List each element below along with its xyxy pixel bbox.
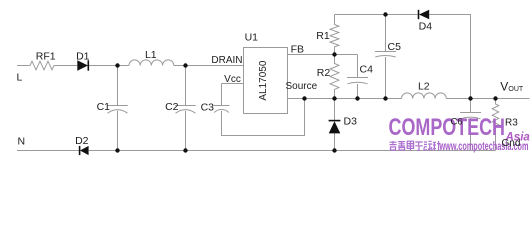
- svg-text:R1: R1: [316, 30, 330, 42]
- svg-text:Gnd: Gnd: [502, 138, 521, 149]
- svg-text:C3: C3: [201, 102, 215, 114]
- junction dot output R3: [493, 96, 497, 100]
- svg-text:D1: D1: [76, 51, 90, 63]
- svg-text:Vcc: Vcc: [224, 74, 241, 85]
- svg-text:C1: C1: [97, 101, 111, 113]
- resistor R2: [330, 55, 339, 99]
- inductor L2: [402, 93, 447, 99]
- junction dot source C4: [355, 96, 359, 100]
- wire C4 branch upper: [357, 55, 359, 78]
- wire C4 branch lower: [357, 84, 359, 99]
- bottom rail N to D2: [17, 150, 79, 152]
- svg-text:C5: C5: [388, 41, 402, 53]
- wire Source pin: [288, 98, 402, 100]
- top rail right of D4 to output node: [429, 15, 470, 99]
- svg-text:U1: U1: [245, 31, 259, 43]
- wire RF1 to D1: [54, 65, 77, 67]
- IC U1 box: [244, 48, 288, 114]
- wire D3 branch upper: [334, 99, 336, 121]
- wire C1 branch lower: [117, 111, 119, 151]
- svg-text:D4: D4: [419, 20, 433, 32]
- svg-text:L1: L1: [145, 49, 157, 61]
- capacitor C2: [175, 106, 196, 114]
- svg-text:Source: Source: [286, 81, 318, 92]
- junction dot bottom rail C2: [183, 148, 187, 152]
- wire C5 branch upper: [385, 15, 387, 52]
- svg-text:N: N: [18, 136, 26, 148]
- diode D4: [419, 10, 429, 19]
- top rail left of D4: [335, 14, 418, 16]
- diode D3: [329, 121, 341, 133]
- svg-text:OUT: OUT: [508, 86, 524, 93]
- bottom rail D2 to Gnd: [89, 150, 496, 152]
- inductor L1: [129, 60, 174, 66]
- wire C1 branch upper: [117, 66, 119, 106]
- svg-text:V: V: [500, 80, 508, 94]
- wire C2 branch upper: [185, 66, 187, 106]
- wire C6 branch lower: [470, 118, 472, 151]
- svg-text:R2: R2: [317, 67, 331, 79]
- svg-text:DRAIN: DRAIN: [211, 55, 242, 66]
- resistor R3: [492, 99, 498, 151]
- resistor RF1: [30, 61, 54, 70]
- capacitor C6: [460, 113, 481, 119]
- wire D1 to L1: [89, 65, 129, 67]
- svg-text:AL17050: AL17050: [258, 60, 269, 100]
- junction dot FB divider: [332, 52, 336, 56]
- junction dot L line C1: [115, 63, 119, 67]
- wire C2 branch lower: [185, 111, 187, 151]
- capacitor C4: [347, 78, 368, 84]
- diode D2: [80, 146, 89, 155]
- svg-text:C4: C4: [360, 63, 374, 75]
- junction dot L line C2: [183, 63, 187, 67]
- svg-text:C2: C2: [165, 101, 179, 113]
- junction dot source R2 D3: [332, 96, 336, 100]
- resistor R1: [330, 15, 339, 55]
- junction dot output C6: [468, 96, 472, 100]
- wire Vcc to C3: [221, 84, 223, 106]
- diode D1: [77, 60, 88, 70]
- wire D3 branch lower: [334, 133, 336, 150]
- svg-text:L: L: [17, 72, 23, 84]
- wire L1 to U1 DRAIN pin: [174, 65, 244, 67]
- wire L2 to VOUT: [446, 98, 529, 100]
- wire C6 branch upper: [470, 99, 472, 113]
- wire C5 branch lower: [385, 57, 387, 99]
- svg-text:D3: D3: [344, 115, 358, 127]
- wire L input to RF1: [17, 65, 30, 67]
- junction dot source C3 return: [302, 96, 306, 100]
- junction dot source C5: [383, 96, 387, 100]
- svg-text:R3: R3: [505, 117, 518, 128]
- svg-text:RF1: RF1: [36, 51, 56, 63]
- svg-text:COMPOTECH: COMPOTECH: [389, 114, 506, 141]
- svg-text:C6: C6: [451, 116, 463, 127]
- svg-text:L2: L2: [418, 81, 430, 93]
- svg-text:D2: D2: [75, 135, 89, 147]
- watermark chinese tagline: [390, 141, 441, 151]
- capacitor C5: [375, 52, 396, 58]
- svg-text:FB: FB: [291, 43, 304, 55]
- wire C3 to source return loop: [222, 99, 305, 136]
- wire FB pin to divider: [288, 54, 358, 56]
- wire Vcc pin: [222, 83, 244, 85]
- capacitor C1: [107, 106, 128, 114]
- junction dot top rail C5: [383, 12, 387, 16]
- junction dot bottom rail C1: [115, 148, 119, 152]
- junction dot bottom rail D3: [332, 148, 336, 152]
- capacitor C3: [214, 106, 230, 113]
